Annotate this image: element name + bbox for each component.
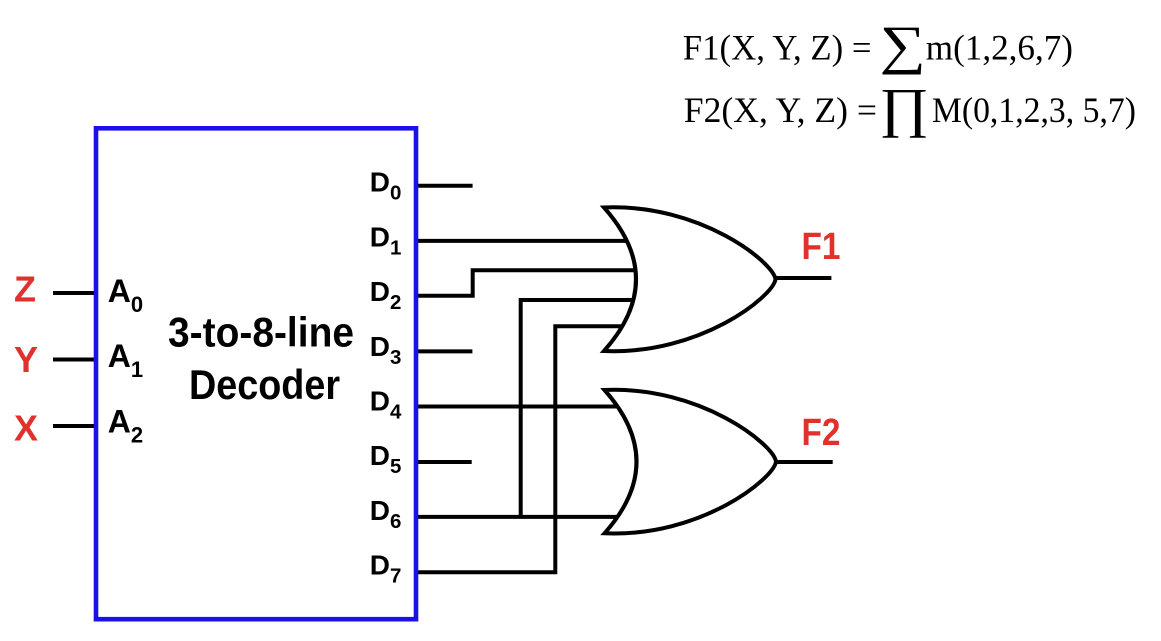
wire F1 output bbox=[775, 276, 831, 280]
svg-text:D0: D0 bbox=[370, 167, 402, 205]
wire D7 to OR1 input 4 bbox=[416, 326, 650, 572]
wire F2 output bbox=[776, 460, 833, 464]
wire D1 to OR1 input 1 bbox=[416, 239, 650, 243]
wire D2 to OR1 input 2 (step up) bbox=[416, 270, 650, 296]
svg-text:3-to-8-line: 3-to-8-line bbox=[168, 308, 354, 355]
svg-text:D7: D7 bbox=[370, 550, 402, 588]
wire D4 to OR2 input 1 bbox=[416, 405, 650, 409]
svg-text:Y: Y bbox=[14, 339, 38, 380]
wire X to A2 bbox=[53, 424, 96, 428]
svg-text:M(0,1,2,3, 5,7): M(0,1,2,3, 5,7) bbox=[932, 90, 1136, 130]
svg-text:X: X bbox=[14, 408, 38, 449]
wire D0 stub bbox=[416, 184, 473, 188]
svg-text:∑: ∑ bbox=[880, 15, 926, 75]
decoder box U1 bbox=[96, 128, 416, 619]
or-gate U2 (F1) bbox=[604, 207, 776, 351]
svg-text:D3: D3 bbox=[370, 331, 402, 369]
svg-text:Decoder: Decoder bbox=[189, 361, 340, 408]
svg-text:m(1,2,6,7): m(1,2,6,7) bbox=[926, 27, 1073, 67]
svg-text:A2: A2 bbox=[108, 404, 143, 448]
wire D5 stub bbox=[416, 460, 472, 464]
svg-text:D2: D2 bbox=[370, 276, 402, 314]
or-gate U3 (F2) bbox=[605, 390, 777, 534]
formula F1 bbox=[683, 15, 1073, 75]
wire D6 to OR2 input 2 bbox=[416, 515, 650, 519]
svg-text:D4: D4 bbox=[370, 386, 402, 424]
svg-text:D6: D6 bbox=[370, 495, 402, 533]
svg-text:F2: F2 bbox=[802, 412, 841, 454]
svg-text:F2(X, Y, Z) =: F2(X, Y, Z) = bbox=[684, 90, 877, 130]
svg-text:∏: ∏ bbox=[879, 78, 929, 138]
svg-text:F1(X, Y, Z) =: F1(X, Y, Z) = bbox=[683, 27, 872, 67]
formula F2 bbox=[684, 78, 1136, 138]
svg-text:D5: D5 bbox=[370, 440, 402, 478]
wire D6 branch to OR1 input 3 bbox=[521, 300, 650, 517]
svg-text:F1: F1 bbox=[802, 226, 841, 268]
wire D3 stub bbox=[416, 349, 472, 353]
wire Y to A1 bbox=[53, 358, 96, 362]
svg-text:A1: A1 bbox=[108, 338, 143, 382]
wire Z to A0 bbox=[53, 291, 96, 295]
svg-text:D1: D1 bbox=[370, 221, 402, 259]
svg-text:A0: A0 bbox=[108, 273, 143, 317]
svg-text:Z: Z bbox=[14, 269, 36, 310]
